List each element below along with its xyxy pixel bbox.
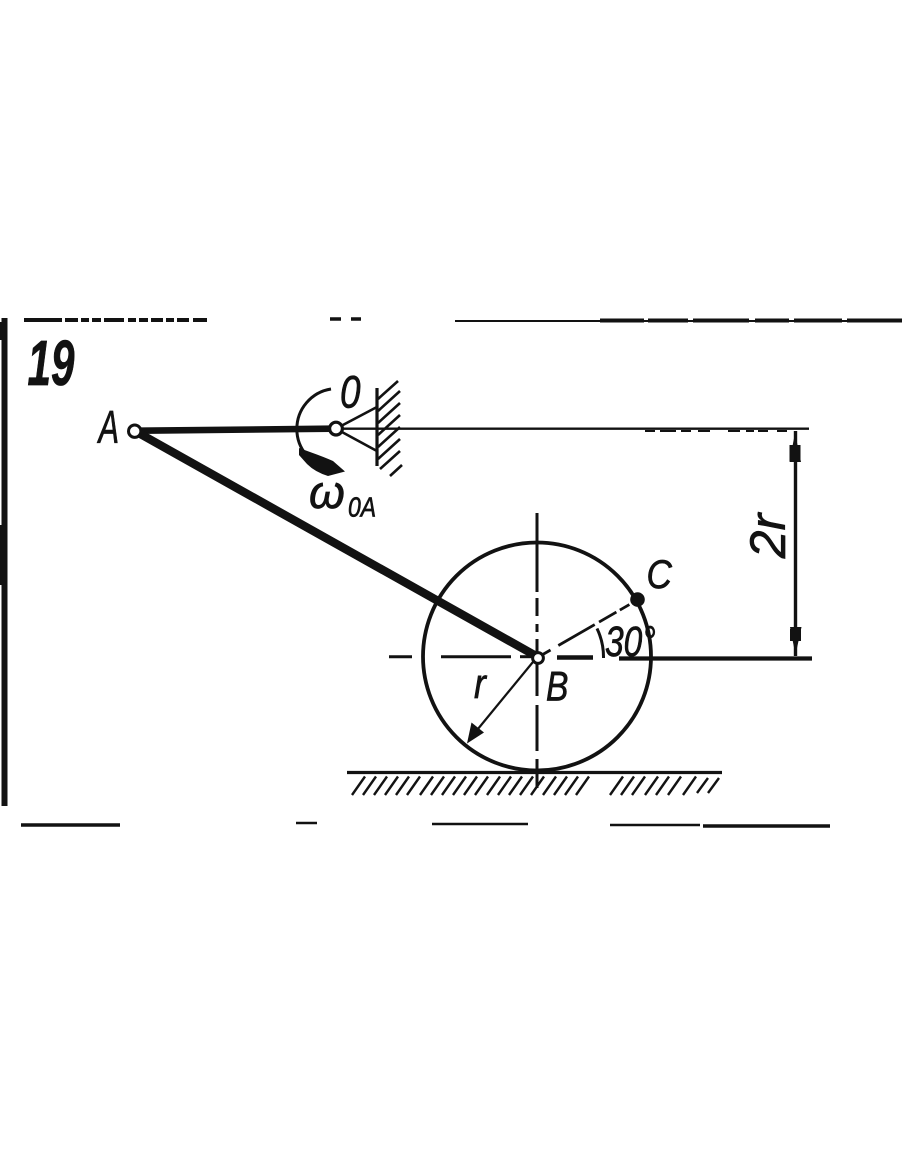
- svg-text:19: 19: [28, 328, 75, 399]
- svg-text:C: C: [647, 552, 673, 597]
- svg-text:A: A: [97, 403, 119, 454]
- svg-text:ω: ω: [309, 466, 345, 518]
- svg-text:B: B: [546, 664, 568, 710]
- svg-text:0: 0: [340, 367, 361, 417]
- svg-text:30°: 30°: [605, 618, 656, 666]
- svg-text:2r: 2r: [740, 511, 796, 559]
- svg-text:r: r: [474, 661, 488, 707]
- svg-text:0A: 0A: [348, 492, 376, 523]
